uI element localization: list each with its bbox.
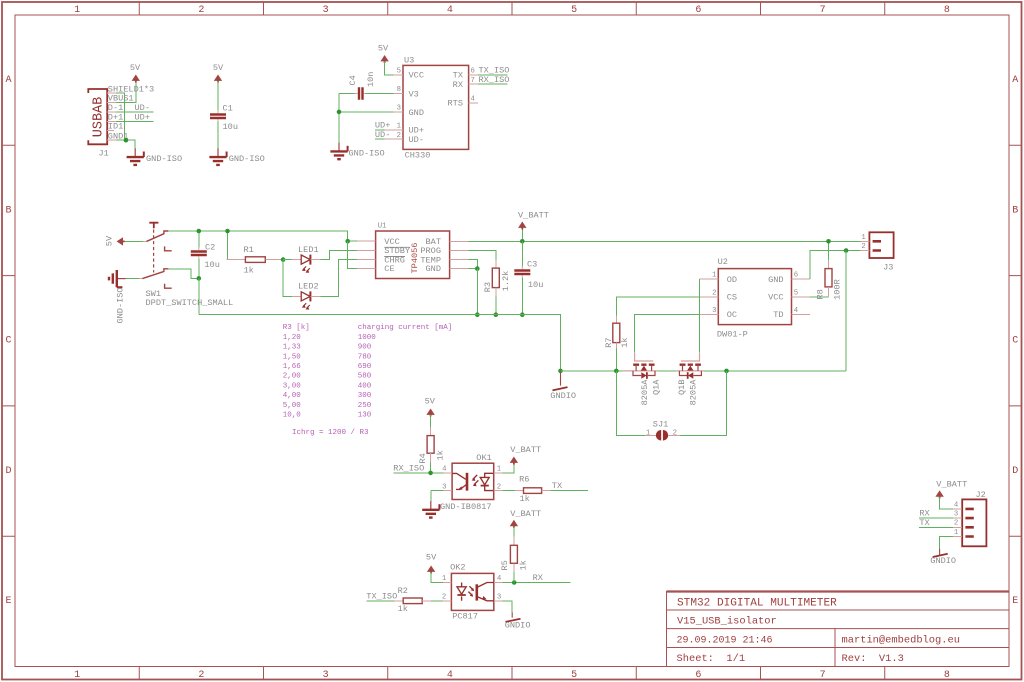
resistor R4 <box>427 436 434 454</box>
wire UD- into U3 <box>375 138 384 140</box>
svg-text:1: 1 <box>646 429 651 437</box>
svg-text:5: 5 <box>397 67 401 75</box>
R3 bottom pin <box>495 288 497 297</box>
svg-text:OD: OD <box>727 275 737 285</box>
junction C3 rail <box>520 312 525 317</box>
optocoupler OK2 body <box>451 573 493 610</box>
wire TX <box>550 490 588 492</box>
svg-text:E: E <box>1012 596 1018 607</box>
svg-text:4: 4 <box>497 575 502 583</box>
svg-text:C2: C2 <box>205 243 215 253</box>
svg-text:CE: CE <box>384 264 394 274</box>
svg-text:8205A: 8205A <box>640 379 650 406</box>
wire LED2 to CHRG <box>320 260 356 297</box>
optocoupler OK1 body <box>452 463 494 499</box>
svg-text:C1: C1 <box>223 104 233 114</box>
wire RX to J2 pin3 <box>919 517 953 519</box>
power V_BATT at OK1 <box>510 457 518 465</box>
svg-text:3,00: 3,00 <box>283 382 302 390</box>
wire to LED2 <box>283 260 292 297</box>
capacitor C1 <box>210 115 226 119</box>
svg-text:Ichrg = 1200 / R3: Ichrg = 1200 / R3 <box>292 429 369 437</box>
svg-text:3: 3 <box>397 105 401 113</box>
switch SW1 pole1 throw T mark <box>149 223 158 229</box>
svg-text:1k: 1k <box>436 450 446 460</box>
svg-text:D: D <box>1012 466 1018 477</box>
wire OC to Q1A gate <box>635 314 700 352</box>
svg-text:UD-: UD- <box>375 130 390 140</box>
svg-text:3: 3 <box>954 511 958 519</box>
R8 top pin <box>828 260 830 269</box>
wire R7 to rail <box>615 349 617 371</box>
wire TX to J2 pin2 <box>919 526 953 528</box>
svg-text:E: E <box>5 596 11 607</box>
junction R8 V_BATT <box>826 239 831 244</box>
wire TX_ISO to R2 <box>366 600 394 602</box>
transistor Q1A 8205A <box>622 353 658 376</box>
junction R1 branch <box>225 229 230 234</box>
svg-text:C4: C4 <box>348 75 358 85</box>
connector J1 USBAB body <box>88 89 107 144</box>
svg-text:5V: 5V <box>426 553 437 563</box>
junction GNDIO rail <box>558 369 563 374</box>
svg-text:4,00: 4,00 <box>283 392 302 400</box>
svg-text:A: A <box>5 75 11 86</box>
svg-text:RX_ISO: RX_ISO <box>479 75 510 85</box>
wire V_BATT rail BAT to J3 pin1 <box>468 240 860 242</box>
R4 bottom pin <box>430 453 432 462</box>
svg-text:2,00: 2,00 <box>283 373 302 381</box>
ground GND-ISO at C1 <box>209 148 226 165</box>
svg-text:TD: TD <box>773 310 783 320</box>
svg-text:RX: RX <box>453 80 463 90</box>
svg-text:1: 1 <box>442 575 447 583</box>
resistor R6 <box>524 488 542 494</box>
wire rail to R1 <box>227 231 229 260</box>
svg-text:martin@embedblog.eu: martin@embedblog.eu <box>842 635 960 647</box>
svg-text:5V: 5V <box>130 63 141 73</box>
svg-text:VCC: VCC <box>409 71 424 81</box>
svg-text:1k: 1k <box>520 494 530 504</box>
svg-text:Rev: V1.3: Rev: V1.3 <box>842 653 904 665</box>
svg-text:R8: R8 <box>815 289 825 299</box>
svg-text:V_BATT: V_BATT <box>936 479 967 489</box>
power 5V at U3 <box>380 55 388 63</box>
svg-text:2: 2 <box>198 670 204 681</box>
wire J2 pin1 to GNDIO <box>940 537 953 549</box>
svg-text:GND: GND <box>426 264 441 274</box>
svg-text:8: 8 <box>944 5 950 16</box>
resistor R5 <box>510 545 517 563</box>
svg-text:B: B <box>5 205 11 216</box>
wire R5 to RX <box>513 572 515 583</box>
wire to LED1 <box>283 259 292 261</box>
wire V_BATT arrow <box>521 228 523 241</box>
svg-text:charging current [mA]: charging current [mA] <box>358 324 453 332</box>
svg-text:CS: CS <box>727 293 737 303</box>
svg-text:RX: RX <box>533 573 543 583</box>
svg-text:900: 900 <box>358 344 372 352</box>
svg-text:7: 7 <box>471 77 475 85</box>
svg-text:R1: R1 <box>244 245 254 255</box>
svg-text:TP4056: TP4056 <box>410 243 420 274</box>
resistor R2 <box>403 598 422 604</box>
svg-text:4: 4 <box>471 96 476 104</box>
svg-text:400: 400 <box>358 382 372 390</box>
svg-text:RX_ISO: RX_ISO <box>393 464 424 474</box>
svg-text:GND-ISO: GND-ISO <box>146 154 182 164</box>
op-amp U3 CH330 body <box>403 65 469 149</box>
switch SW1 link dashed <box>153 230 155 273</box>
capacitor C2 <box>191 252 207 256</box>
wire C2 top <box>198 231 200 248</box>
svg-text:8: 8 <box>397 86 401 94</box>
R5 bottom pin <box>513 563 515 572</box>
svg-text:B: B <box>1012 205 1018 216</box>
svg-text:TX: TX <box>552 481 562 491</box>
resistor R1 <box>245 257 265 263</box>
svg-text:3: 3 <box>442 483 446 491</box>
wire U1 GND <box>468 268 477 270</box>
svg-text:10u: 10u <box>223 122 238 132</box>
wire top rail 5V-sw to U1 VCC <box>168 231 347 241</box>
svg-text:RTS: RTS <box>448 99 463 109</box>
junction C2 top <box>197 229 202 234</box>
wire PROG to R3 <box>468 250 496 260</box>
wire VCC to R8 <box>810 296 828 298</box>
switch SW1 pole1 lever <box>147 234 165 242</box>
svg-text:10u: 10u <box>204 260 219 270</box>
svg-text:5: 5 <box>794 289 798 297</box>
U3 left pin stubs <box>384 75 403 139</box>
svg-text:10u: 10u <box>528 280 543 290</box>
ground GND-ISO at J1 <box>127 148 144 165</box>
svg-text:1: 1 <box>74 5 80 16</box>
svg-text:5V: 5V <box>213 63 224 73</box>
svg-text:GND: GND <box>409 108 424 118</box>
svg-text:1: 1 <box>397 123 402 131</box>
svg-text:7: 7 <box>820 5 826 16</box>
svg-text:2: 2 <box>712 289 716 297</box>
svg-text:1,20: 1,20 <box>283 334 302 342</box>
wire R4 to RX_ISO <box>430 462 432 473</box>
svg-text:J1: J1 <box>99 149 109 159</box>
wire U2 GND to J3 pin2 <box>810 251 860 280</box>
solder jumper SJ1 pads <box>656 430 661 441</box>
svg-text:C3: C3 <box>527 260 537 270</box>
svg-text:1: 1 <box>861 234 866 242</box>
svg-text:10n: 10n <box>366 72 376 87</box>
svg-text:UD-: UD- <box>409 135 424 145</box>
svg-text:C: C <box>5 336 11 347</box>
junction LED branch <box>281 257 286 262</box>
wire down to rail <box>845 251 847 371</box>
svg-text:C: C <box>1012 336 1018 347</box>
wire UD+ into U3 <box>375 129 384 131</box>
wire OK2 pin3 to GNDIO <box>503 601 513 613</box>
wire D+ / UD+ <box>116 120 154 122</box>
wire GND down to rail <box>476 269 478 315</box>
svg-text:2: 2 <box>198 5 204 16</box>
junction J3 pin2 branch <box>844 248 849 253</box>
power 5V at C1 <box>214 75 222 83</box>
wire VBUS to 5V <box>116 81 136 102</box>
svg-text:R3: R3 <box>483 282 493 292</box>
svg-text:1k: 1k <box>398 604 408 614</box>
svg-text:1,66: 1,66 <box>283 363 302 371</box>
svg-text:780: 780 <box>358 353 372 361</box>
svg-text:LED1: LED1 <box>298 245 319 255</box>
junction R7 rail <box>614 369 619 374</box>
junction TEMP GND <box>475 266 480 271</box>
svg-text:USBAB: USBAB <box>92 97 107 138</box>
svg-text:6: 6 <box>695 670 701 681</box>
svg-text:5V: 5V <box>378 44 389 54</box>
wire R2 to OK2 pin2 <box>431 600 443 602</box>
wire C4 left <box>339 93 356 95</box>
junction rail SJ1 branch <box>724 369 729 374</box>
capacitor C3 <box>514 271 530 275</box>
svg-text:1k: 1k <box>620 337 630 347</box>
svg-text:8205A: 8205A <box>689 379 699 406</box>
svg-text:DPDT_SWITCH_SMALL: DPDT_SWITCH_SMALL <box>146 298 234 308</box>
svg-text:2: 2 <box>497 483 501 491</box>
svg-text:2: 2 <box>861 243 865 251</box>
wire to VCC pin <box>348 240 357 242</box>
svg-text:5V: 5V <box>104 235 114 246</box>
junction C2 bottom <box>197 276 202 281</box>
svg-text:Q1B: Q1B <box>677 380 687 395</box>
junction V_BATT C3 <box>520 239 525 244</box>
svg-text:4: 4 <box>447 5 453 16</box>
junction RX R5 <box>512 580 517 585</box>
R2 right pin <box>422 600 431 602</box>
svg-text:U3: U3 <box>404 55 414 65</box>
ground flag GNDIO <box>560 371 562 386</box>
R1 left pin <box>227 259 246 261</box>
U1 right pin stubs <box>450 241 469 268</box>
OK1 internal LED and detector <box>452 473 494 491</box>
R5 top pin <box>513 537 515 546</box>
svg-text:PC817: PC817 <box>452 612 478 622</box>
svg-text:29.09.2019 21:46: 29.09.2019 21:46 <box>677 636 773 647</box>
junction J1 GND <box>124 138 129 143</box>
svg-text:SJ1: SJ1 <box>653 419 668 429</box>
connector J2 body <box>962 499 986 546</box>
wire rail Q1B to J3 branch <box>704 370 847 372</box>
svg-text:1,33: 1,33 <box>283 344 302 352</box>
svg-text:R7: R7 <box>604 337 614 347</box>
wire GND net at U3 <box>339 94 394 143</box>
U2 right pin stubs <box>792 279 811 314</box>
switch SW1 pole1 contact <box>164 231 169 234</box>
J1 pin stubs <box>107 93 116 140</box>
svg-text:R2: R2 <box>398 586 408 596</box>
svg-text:1k: 1k <box>519 560 529 570</box>
OK2 pin stubs <box>443 583 503 601</box>
wire SW1 pole2 to C2 bottom <box>168 269 198 278</box>
J3 pin stubs <box>860 241 869 250</box>
ground at OK1 <box>422 501 439 518</box>
wire ground to SW1 pole2 <box>126 278 140 280</box>
wire OK1 pin2 to R6 <box>503 490 515 492</box>
OK1 pin stubs <box>443 473 502 491</box>
connector J3 body <box>869 232 893 258</box>
power V_BATT at R5 <box>510 520 518 528</box>
svg-text:A: A <box>1012 75 1018 86</box>
wire TX_ISO <box>478 74 508 76</box>
wire C4 to V3 <box>366 93 394 95</box>
wire down to bottom rail <box>198 278 200 314</box>
svg-text:1: 1 <box>74 670 80 681</box>
svg-text:V_BATT: V_BATT <box>510 445 541 455</box>
svg-text:100R: 100R <box>833 279 843 300</box>
svg-text:2: 2 <box>954 520 958 528</box>
R3 top pin <box>495 260 497 268</box>
wire rail between Q1A Q1B <box>658 370 677 372</box>
wire 5V to C1 <box>217 81 219 111</box>
svg-text:V_BATT: V_BATT <box>518 211 549 221</box>
svg-text:GND: GND <box>768 275 783 285</box>
svg-text:GND-ISO: GND-ISO <box>229 154 265 164</box>
svg-text:8: 8 <box>944 670 950 681</box>
ground GND-ISO at SW1 <box>109 270 126 287</box>
LED LED1 <box>301 255 310 273</box>
svg-text:OC: OC <box>727 310 737 320</box>
R1 right pin <box>265 259 283 261</box>
svg-text:R4: R4 <box>418 453 428 463</box>
svg-text:1,50: 1,50 <box>283 353 302 361</box>
U1 left pin stubs <box>357 241 376 268</box>
svg-text:2: 2 <box>673 429 677 437</box>
svg-text:3: 3 <box>497 594 501 602</box>
transistor Q1B 8205A <box>676 353 704 376</box>
wire battery-minus rail <box>561 370 623 372</box>
wire bottom rail GNDIO <box>199 315 561 371</box>
svg-text:3: 3 <box>323 5 329 16</box>
switch SW1 pole2 NC contact <box>165 284 172 288</box>
wire RX_ISO to OK1 pin4 <box>393 472 443 474</box>
svg-text:VCC: VCC <box>768 293 783 303</box>
junction C4 gnd <box>337 110 342 115</box>
svg-text:3: 3 <box>712 307 716 315</box>
power flag 5V arrow left <box>117 237 125 245</box>
svg-text:UD+: UD+ <box>135 112 150 122</box>
R4 top pin <box>430 427 432 436</box>
R6 left pin <box>515 490 524 492</box>
R2 left pin <box>395 600 404 602</box>
svg-text:4: 4 <box>954 501 959 509</box>
svg-text:4: 4 <box>447 670 453 681</box>
svg-text:D: D <box>5 466 11 477</box>
resistor R7 <box>613 323 620 342</box>
U2 DW01-P body <box>718 269 791 325</box>
svg-text:580: 580 <box>358 373 372 381</box>
wire TEMP to GND net <box>468 260 477 269</box>
wire C3 bottom <box>521 278 523 315</box>
junction VCC <box>345 239 350 244</box>
R7 bottom pin <box>615 343 617 349</box>
J2 pin stubs <box>953 509 962 537</box>
svg-text:STM32 DIGITAL MULTIMETER: STM32 DIGITAL MULTIMETER <box>677 598 837 610</box>
svg-text:5: 5 <box>571 5 577 16</box>
wire OD to Q1B gate <box>699 279 701 353</box>
wire C3 top <box>521 241 523 266</box>
svg-text:V15_USB_isolator: V15_USB_isolator <box>677 616 777 628</box>
wire GND1 to ground <box>116 140 135 148</box>
ground flag GNDIO at J2 <box>939 549 941 555</box>
svg-text:GND-ISO: GND-ISO <box>115 287 125 323</box>
U1 TP4056 body <box>376 231 450 279</box>
note table charging current <box>283 324 453 437</box>
svg-text:R3 [k]: R3 [k] <box>283 324 310 332</box>
svg-text:6: 6 <box>695 5 701 16</box>
svg-text:GNDIO: GNDIO <box>550 391 576 401</box>
svg-text:OK1: OK1 <box>476 453 491 463</box>
svg-text:U2: U2 <box>718 257 728 267</box>
R6 right pin <box>542 490 551 492</box>
svg-text:3: 3 <box>323 670 329 681</box>
junction RX_ISO <box>428 471 433 476</box>
svg-text:V3: V3 <box>409 89 419 99</box>
wire rail to SJ1 pin1 <box>616 371 645 435</box>
wire RX <box>503 582 571 584</box>
svg-text:300: 300 <box>358 392 372 400</box>
LED1 cathode pin <box>310 259 320 261</box>
svg-text:TX_ISO: TX_ISO <box>366 591 397 601</box>
svg-text:130: 130 <box>358 412 372 420</box>
wire LED1 to STDBY <box>320 250 356 259</box>
svg-text:J2: J2 <box>976 490 986 500</box>
svg-text:GNDIO: GNDIO <box>505 621 531 631</box>
SJ1 pin2 lead <box>668 434 680 436</box>
OK2 internal LED and phototransistor <box>457 583 494 601</box>
resistor R8 <box>825 269 832 287</box>
switch SW1 pole2 lever <box>142 271 164 278</box>
svg-text:6: 6 <box>794 272 798 280</box>
svg-text:1: 1 <box>712 272 717 280</box>
power V_BATT at J2 <box>935 490 943 498</box>
svg-text:1: 1 <box>954 529 959 537</box>
svg-text:J3: J3 <box>883 263 893 273</box>
svg-text:4: 4 <box>442 466 447 474</box>
svg-text:1000: 1000 <box>358 334 377 342</box>
svg-text:5,00: 5,00 <box>283 402 302 410</box>
resistor R3 <box>492 268 499 288</box>
LED2 cathode pin <box>310 295 320 297</box>
wire R3 to rail <box>495 296 497 314</box>
wire CS to R7 <box>616 297 699 316</box>
svg-text:1: 1 <box>497 466 502 474</box>
power V_BATT at C3 <box>518 222 526 230</box>
svg-text:2: 2 <box>397 132 401 140</box>
wire V_BATT to R5 <box>513 527 515 537</box>
SJ1 pin1 lead <box>645 434 656 436</box>
power 5V at J1 <box>132 75 140 83</box>
svg-text:V_BATT: V_BATT <box>510 509 541 519</box>
capacitor C4 <box>359 87 363 99</box>
wire OK1 pin3 <box>431 490 444 492</box>
U2 left pin stubs <box>700 279 719 314</box>
power 5V at R4 <box>426 409 434 417</box>
svg-text:250: 250 <box>358 402 372 410</box>
svg-text:5: 5 <box>571 670 577 681</box>
wire 5V to U3 VCC <box>385 62 394 75</box>
svg-text:DW01-P: DW01-P <box>717 329 748 339</box>
wire C2 bottom <box>198 259 200 279</box>
svg-text:1.2k: 1.2k <box>501 271 511 292</box>
power 5V at OK2 <box>427 566 435 574</box>
